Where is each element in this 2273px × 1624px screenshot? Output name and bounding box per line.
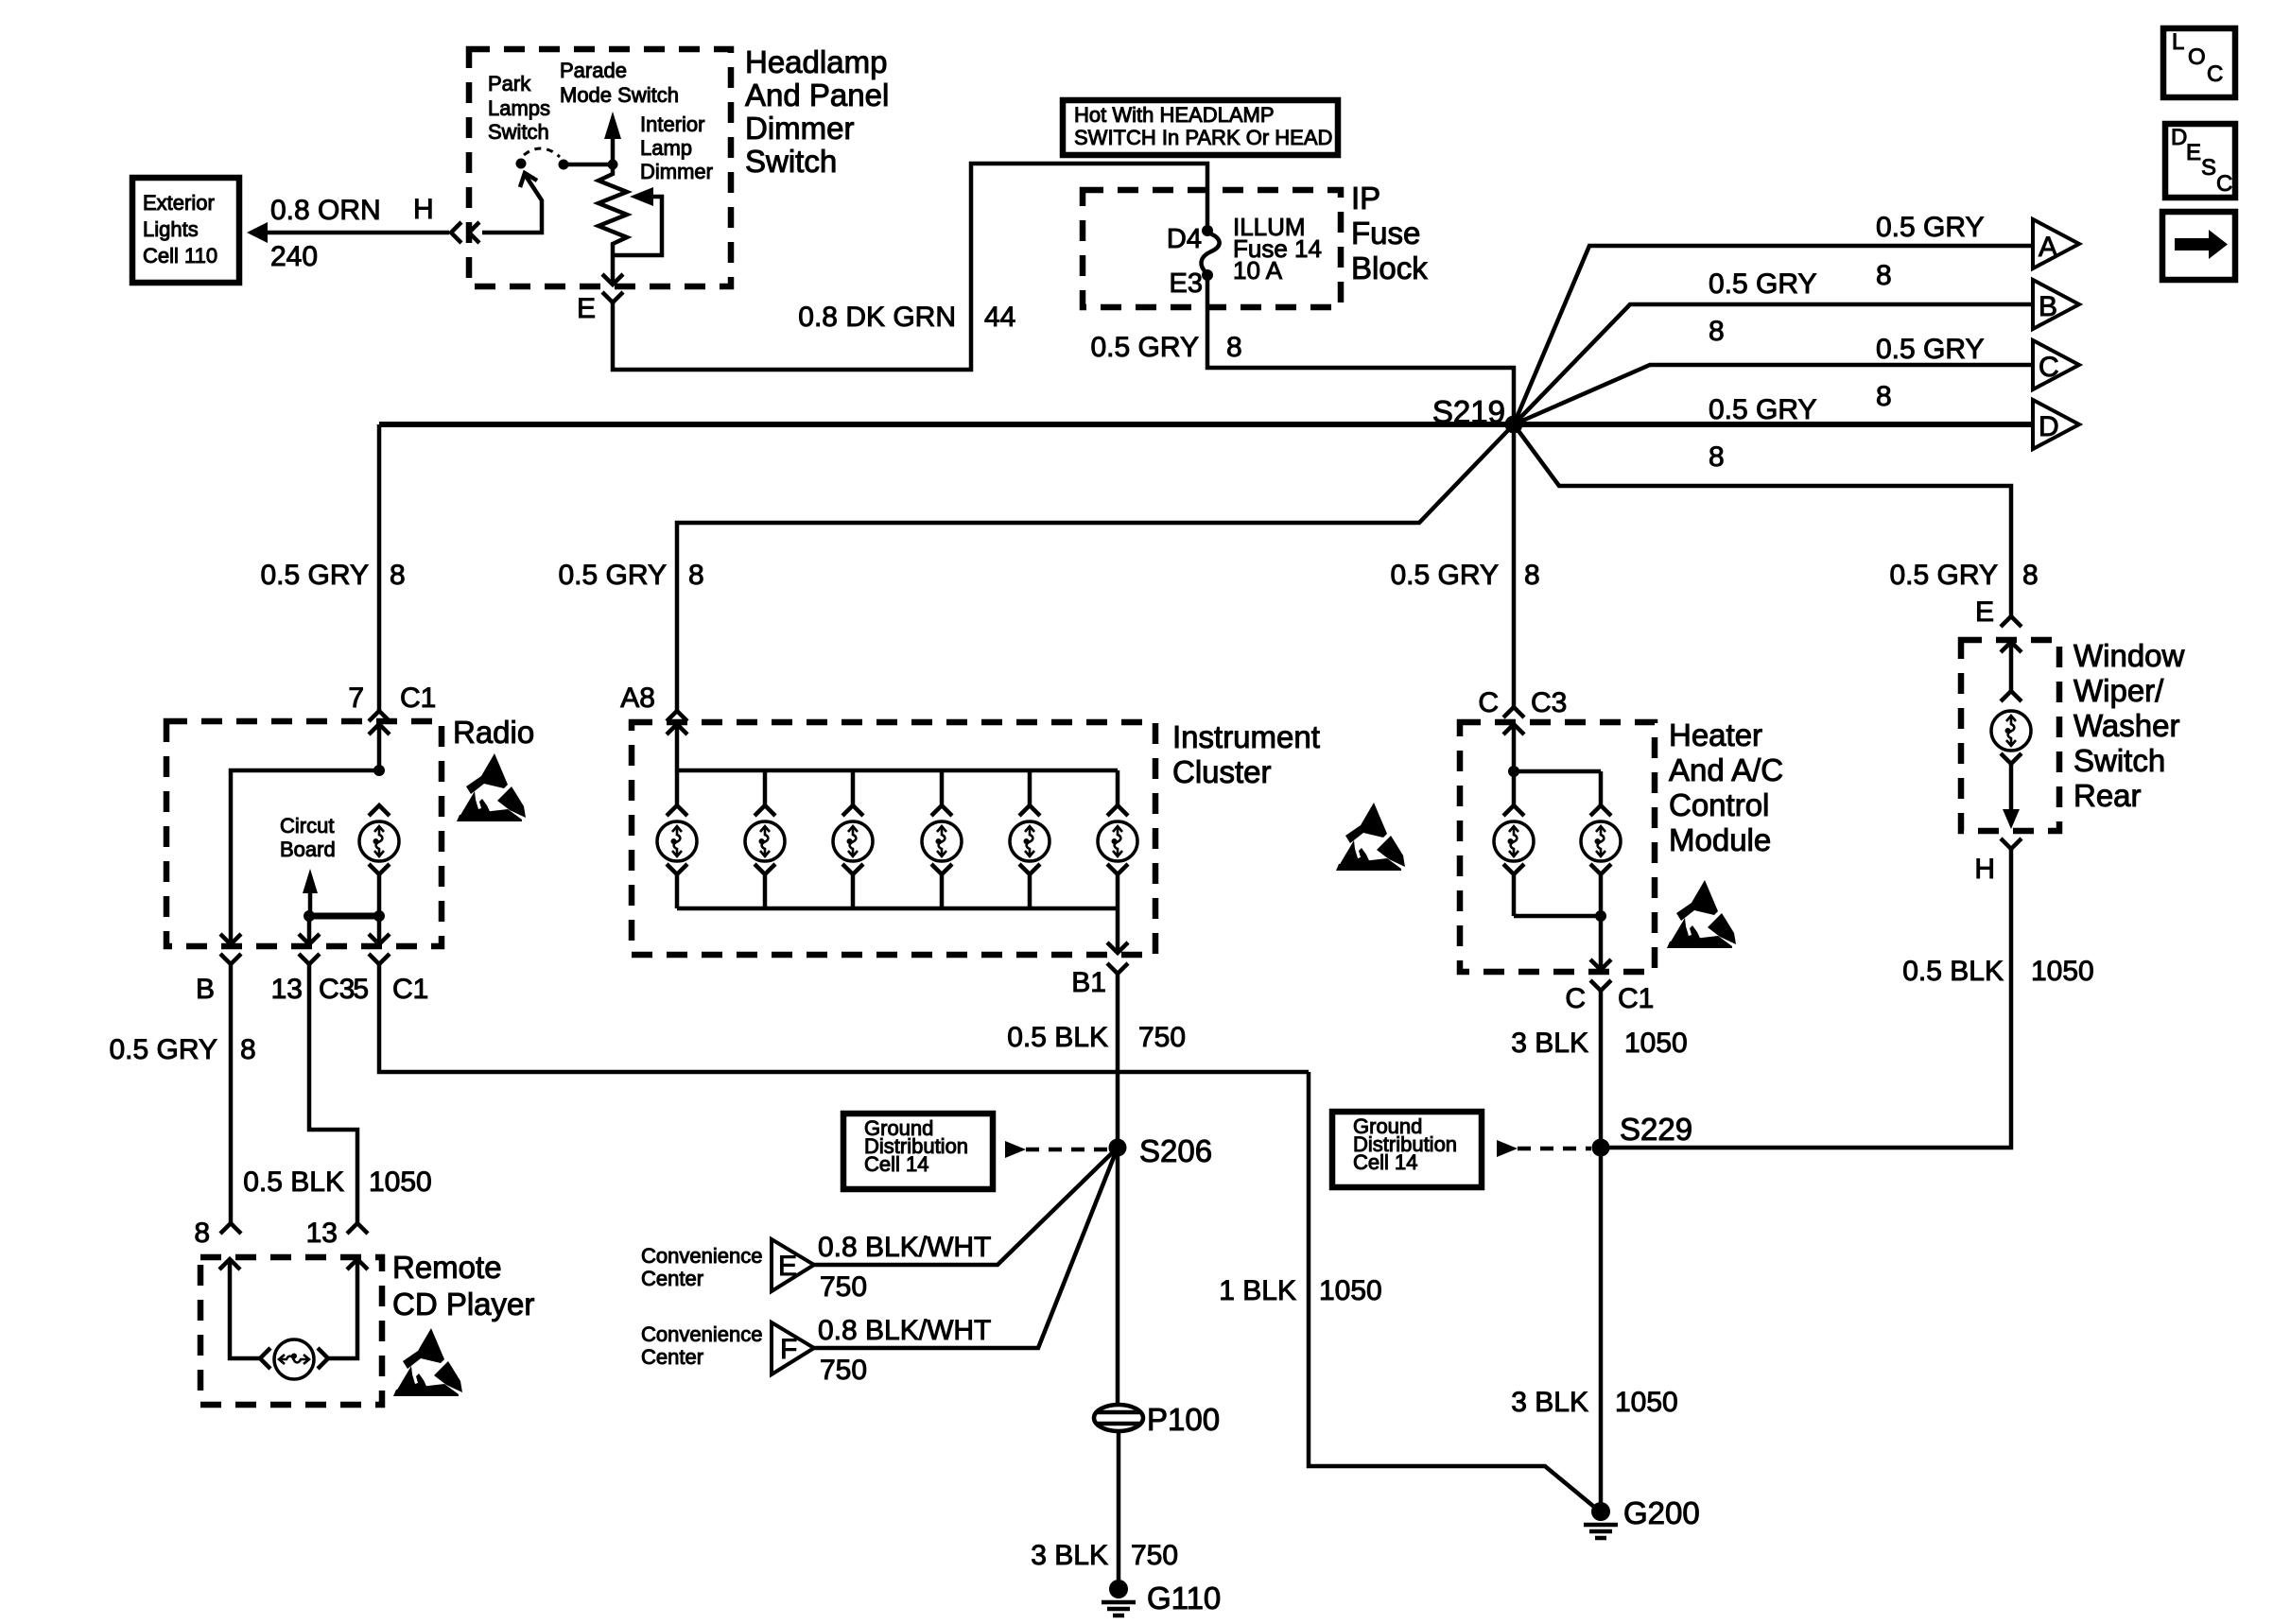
svg-text:Lights: Lights bbox=[143, 217, 199, 241]
svg-text:D: D bbox=[2171, 125, 2187, 150]
svg-text:S206: S206 bbox=[1139, 1133, 1212, 1168]
label: Heater And A/C Control Module bbox=[1669, 717, 1783, 857]
label: Headlamp And Panel Dimmer Switch bbox=[745, 44, 889, 179]
wire: radio circuit board bus bbox=[299, 910, 390, 944]
svg-text:L: L bbox=[2172, 29, 2184, 55]
svg-text:Block: Block bbox=[1351, 251, 1428, 285]
svg-text:8: 8 bbox=[1709, 441, 1725, 473]
connector A triangle bbox=[2033, 219, 2079, 268]
wire: arrow exit inside wiper box bbox=[2003, 764, 2020, 829]
fuse: ILLUM Fuse 14 10 A element with terminals D4 E3 bbox=[1167, 213, 1322, 299]
svg-text:H: H bbox=[1974, 854, 1995, 885]
svg-text:Dimmer: Dimmer bbox=[640, 160, 713, 183]
svg-text:8: 8 bbox=[1876, 260, 1892, 291]
pin B of Radio bbox=[196, 954, 241, 1005]
ground G200 bbox=[1584, 1495, 1700, 1538]
svg-text:B1: B1 bbox=[1071, 967, 1106, 998]
wiper: dimmer arrow bbox=[613, 187, 662, 255]
svg-text:750: 750 bbox=[1131, 1540, 1178, 1571]
svg-text:8: 8 bbox=[2022, 560, 2039, 591]
component: Radio dashed box bbox=[166, 721, 442, 946]
wire: cluster top bus bbox=[677, 769, 1118, 773]
svg-text:Exterior: Exterior bbox=[143, 191, 215, 215]
resistor: Interior Lamp Dimmer element bbox=[599, 170, 627, 283]
svg-text:C3: C3 bbox=[1531, 687, 1567, 718]
svg-text:Control: Control bbox=[1669, 787, 1769, 822]
svg-text:Convenience: Convenience bbox=[641, 1322, 762, 1346]
wire: 0.5 BLK 1050 from S229 up to wiper pin H bbox=[1601, 838, 2094, 1148]
svg-text:1050: 1050 bbox=[1615, 1387, 1678, 1418]
svg-text:G110: G110 bbox=[1147, 1581, 1221, 1615]
svg-text:1 BLK: 1 BLK bbox=[1219, 1275, 1296, 1306]
label: Remote CD Player bbox=[392, 1250, 534, 1322]
pin 7 C1 entry into Radio bbox=[369, 724, 390, 770]
svg-text:E: E bbox=[778, 1251, 797, 1282]
svg-text:G200: G200 bbox=[1623, 1495, 1700, 1530]
svg-text:And Panel: And Panel bbox=[745, 78, 889, 112]
lamp: wiper switch bulb bbox=[1991, 642, 2031, 764]
pin 5 C1 of Radio bbox=[353, 954, 428, 1005]
svg-text:P100: P100 bbox=[1147, 1402, 1220, 1437]
component: IP Fuse Block dashed box bbox=[1083, 190, 1341, 307]
svg-text:C3: C3 bbox=[319, 974, 355, 1005]
svg-text:0.5 GRY: 0.5 GRY bbox=[260, 560, 369, 591]
svg-text:Center: Center bbox=[641, 1345, 703, 1369]
connector C triangle bbox=[2033, 340, 2079, 389]
svg-text:240: 240 bbox=[270, 241, 318, 272]
svg-text:A: A bbox=[2039, 232, 2057, 263]
svg-text:0.5 GRY: 0.5 GRY bbox=[1090, 332, 1199, 363]
svg-text:8: 8 bbox=[1226, 332, 1242, 363]
svg-text:Module: Module bbox=[1669, 822, 1771, 857]
svg-text:IP: IP bbox=[1351, 181, 1380, 216]
svg-text:13: 13 bbox=[271, 974, 303, 1005]
wire: 3 BLK 750 from P100 to G110 bbox=[1031, 1431, 1178, 1581]
connector P100 pass-through bbox=[1094, 1148, 1220, 1437]
svg-text:0.5 BLK: 0.5 BLK bbox=[1902, 956, 2004, 987]
box: Ground Distribution Cell 14 (right) bbox=[1332, 1112, 1482, 1187]
wire: dashed reference arrow to S229 bbox=[1497, 1140, 1591, 1157]
box DESC bbox=[2165, 124, 2235, 198]
svg-text:1050: 1050 bbox=[1319, 1275, 1382, 1306]
svg-text:E: E bbox=[1975, 596, 1994, 628]
svg-text:C1: C1 bbox=[400, 682, 436, 714]
svg-text:C1: C1 bbox=[1618, 983, 1654, 1014]
connector F Convenience Center bbox=[641, 1322, 814, 1374]
svg-text:Cell 14: Cell 14 bbox=[864, 1152, 928, 1176]
wire: heater bottom bus bbox=[1514, 910, 1606, 922]
svg-text:Rear: Rear bbox=[2073, 778, 2142, 813]
component: Remote CD Player dashed box bbox=[200, 1257, 382, 1405]
svg-text:0.5 GRY: 0.5 GRY bbox=[1876, 212, 1985, 243]
box LOC bbox=[2163, 28, 2235, 97]
svg-text:Dimmer: Dimmer bbox=[745, 111, 854, 146]
icon: ESD symbol for Radio bbox=[457, 753, 526, 821]
svg-text:750: 750 bbox=[1138, 1022, 1186, 1053]
svg-text:0.8 ORN: 0.8 ORN bbox=[270, 195, 381, 226]
wire: 0.8 DK GRN 44 from E to fuse block bbox=[613, 164, 1207, 370]
svg-text:750: 750 bbox=[820, 1355, 867, 1386]
svg-text:Park: Park bbox=[488, 72, 531, 95]
svg-text:0.8 DK GRN: 0.8 DK GRN bbox=[798, 302, 956, 333]
svg-text:Fuse: Fuse bbox=[1351, 216, 1420, 251]
svg-text:Washer: Washer bbox=[2073, 708, 2179, 743]
lamp: heater bulb 2 bbox=[1581, 771, 1621, 916]
svg-text:8: 8 bbox=[688, 560, 704, 591]
component: Instrument Cluster dashed box bbox=[632, 722, 1155, 955]
label: Parade Mode Switch bbox=[560, 59, 679, 107]
svg-text:Cell 110: Cell 110 bbox=[143, 244, 217, 268]
svg-text:10 A: 10 A bbox=[1233, 256, 1283, 285]
wire: 0.5 BLK 1050 from Radio 13 C3 to CD player pin 13 bbox=[243, 964, 432, 1249]
svg-text:C1: C1 bbox=[392, 974, 428, 1005]
wire: 0.5 GRY 8 from Radio B to CD player pin 8 bbox=[109, 964, 255, 1249]
wire: 0.5 GRY 8 from S219 down to Heater pin C C3 bbox=[1390, 424, 1567, 718]
switch: Park Lamps Switch lever and contacts bbox=[482, 148, 569, 233]
wire: 1 BLK 1050 ground run to G200 bbox=[1219, 1072, 1600, 1512]
svg-text:1050: 1050 bbox=[369, 1166, 432, 1198]
svg-text:1050: 1050 bbox=[1624, 1028, 1688, 1059]
svg-text:E: E bbox=[577, 293, 596, 324]
wire: radio branch to pin B bbox=[220, 770, 379, 944]
svg-text:0.8 BLK/WHT: 0.8 BLK/WHT bbox=[818, 1315, 991, 1346]
connector D triangle bbox=[2033, 400, 2079, 449]
lamp: cluster bulb 2 bbox=[745, 770, 785, 908]
label: Circut Board with pointer arrow bbox=[280, 814, 336, 916]
svg-text:8: 8 bbox=[194, 1218, 210, 1249]
lamp: CD player bulb with side connectors bbox=[219, 1259, 368, 1379]
svg-text:Cell 14: Cell 14 bbox=[1353, 1150, 1417, 1174]
wire: dashed reference arrow to S206 bbox=[1005, 1141, 1108, 1158]
wire: 0.8 ORN 240 to Exterior Lights with arrowhead bbox=[247, 195, 449, 272]
svg-text:E: E bbox=[2186, 140, 2201, 165]
lamp: cluster bulb 6 bbox=[1098, 770, 1137, 908]
label: Window Wiper/Washer Switch Rear bbox=[2073, 638, 2185, 813]
svg-text:13: 13 bbox=[306, 1218, 338, 1249]
lamp: cluster bulb 4 bbox=[922, 770, 962, 908]
svg-text:Center: Center bbox=[641, 1267, 703, 1290]
svg-text:0.5 GRY: 0.5 GRY bbox=[1709, 394, 1817, 425]
svg-text:C: C bbox=[1565, 983, 1586, 1014]
svg-text:CD Player: CD Player bbox=[392, 1287, 534, 1322]
svg-text:Window: Window bbox=[2073, 638, 2185, 673]
svg-text:1050: 1050 bbox=[2031, 956, 2094, 987]
connector E Convenience Center bbox=[641, 1239, 814, 1291]
svg-text:3 BLK: 3 BLK bbox=[1511, 1387, 1588, 1418]
svg-text:H: H bbox=[413, 194, 434, 225]
svg-text:O: O bbox=[2188, 44, 2206, 70]
svg-text:0.5 GRY: 0.5 GRY bbox=[1709, 268, 1817, 300]
pin E exit of headlamp switch bbox=[577, 274, 623, 324]
lamp: cluster bulb 1 bbox=[657, 770, 697, 908]
svg-text:Cluster: Cluster bbox=[1172, 754, 1272, 789]
pin A8 entry arrow into cluster bbox=[667, 724, 687, 770]
box: Hot With HEADLAMP SWITCH In PARK Or HEAD bbox=[1063, 100, 1338, 155]
icon: ESD symbol for Instrument Cluster bbox=[1336, 803, 1405, 871]
svg-text:0.5 GRY: 0.5 GRY bbox=[109, 1034, 217, 1065]
connector B triangle bbox=[2033, 280, 2079, 329]
svg-text:Mode Switch: Mode Switch bbox=[560, 83, 679, 107]
svg-text:Radio: Radio bbox=[453, 715, 534, 750]
svg-text:8: 8 bbox=[1876, 381, 1892, 412]
splice S229 bbox=[1592, 1112, 1693, 1157]
svg-text:A8: A8 bbox=[620, 682, 655, 714]
label: Park Lamps Switch bbox=[488, 72, 550, 144]
box: right arrow legend bbox=[2162, 212, 2235, 280]
node H connector chevrons at headlamp switch bbox=[413, 194, 479, 243]
lamp: cluster bulb 3 bbox=[833, 770, 873, 908]
svg-text:Lamps: Lamps bbox=[488, 96, 550, 120]
svg-text:8: 8 bbox=[240, 1034, 256, 1065]
svg-text:Lamp: Lamp bbox=[640, 136, 692, 160]
svg-text:750: 750 bbox=[820, 1271, 867, 1303]
svg-text:Remote: Remote bbox=[392, 1250, 502, 1285]
svg-text:0.5 GRY: 0.5 GRY bbox=[558, 560, 667, 591]
svg-text:C: C bbox=[1478, 687, 1499, 718]
wire: 0.5 GRY 8 from S219 to connector D bbox=[1514, 394, 2033, 473]
svg-text:0.8 BLK/WHT: 0.8 BLK/WHT bbox=[818, 1232, 991, 1263]
pin 13 C3 of Radio bbox=[271, 954, 356, 1005]
wire: main horizontal from S219 to radio drop bbox=[379, 422, 1514, 427]
svg-text:Board: Board bbox=[280, 838, 336, 861]
svg-text:7: 7 bbox=[348, 682, 364, 714]
svg-text:8: 8 bbox=[1524, 560, 1540, 591]
ground G110 bbox=[1102, 1580, 1221, 1615]
svg-text:E3: E3 bbox=[1170, 268, 1203, 299]
pin B1 exit of cluster bbox=[1071, 908, 1128, 998]
svg-text:And A/C: And A/C bbox=[1669, 752, 1783, 787]
splice S219 bbox=[1432, 394, 1523, 434]
wire: 0.5 GRY 8 from S219 to connector B bbox=[1514, 268, 2033, 424]
svg-text:B: B bbox=[2039, 291, 2057, 322]
svg-text:D4: D4 bbox=[1167, 224, 1202, 254]
svg-text:D: D bbox=[2039, 411, 2059, 442]
wire: 0.5 GRY 8 from fuse E3 down to S219 bbox=[1090, 275, 1514, 424]
wire: 0.5 GRY 8 from S219 to Window Wiper pin E bbox=[1514, 424, 2039, 628]
svg-text:F: F bbox=[780, 1334, 797, 1365]
label: Instrument Cluster bbox=[1172, 719, 1320, 789]
svg-text:Heater: Heater bbox=[1669, 717, 1762, 752]
svg-text:0.5 BLK: 0.5 BLK bbox=[1007, 1022, 1108, 1053]
svg-text:44: 44 bbox=[984, 302, 1015, 333]
box: Exterior Lights Cell 110 bbox=[132, 178, 239, 283]
component: Heater And A/C Control Module dashed box bbox=[1460, 722, 1655, 972]
svg-text:0.5 BLK: 0.5 BLK bbox=[243, 1166, 344, 1198]
svg-text:Circut: Circut bbox=[280, 814, 334, 838]
svg-text:Switch: Switch bbox=[488, 120, 549, 144]
lamp: radio illumination bulb bbox=[359, 805, 399, 916]
lamp: heater bulb 1 bbox=[1494, 771, 1534, 916]
icon: ESD symbol for Heater module bbox=[1667, 880, 1736, 948]
switch: Parade Mode Switch arrow bbox=[564, 112, 621, 170]
wire: 0.5 BLK 750 from B1 to S206 bbox=[1007, 974, 1186, 1139]
svg-text:Switch: Switch bbox=[2073, 743, 2165, 778]
lamp: cluster bulb 5 bbox=[1010, 770, 1050, 908]
wire: 3 BLK 1050 from S229 down to G200 bbox=[1511, 1148, 1677, 1503]
component: Headlamp And Panel Dimmer Switch dashed box bbox=[469, 49, 731, 286]
label: Interior Lamp Dimmer bbox=[640, 112, 713, 183]
svg-text:S229: S229 bbox=[1620, 1112, 1692, 1147]
svg-text:Switch: Switch bbox=[745, 144, 837, 179]
component: Window Wiper/Washer Switch Rear dashed box bbox=[1961, 640, 2059, 831]
svg-text:0.5 GRY: 0.5 GRY bbox=[1390, 560, 1499, 591]
wire: 0.5 GRY 8 from S219 to connector C bbox=[1514, 334, 2033, 424]
svg-text:Instrument: Instrument bbox=[1172, 719, 1320, 754]
wire: 0.5 GRY 8 down to Radio pin 7 C1 bbox=[260, 424, 436, 721]
pin C C3 entry arrow into heater bbox=[1503, 724, 1524, 771]
wire: cluster bottom bus bbox=[677, 907, 1118, 911]
box: Ground Distribution Cell 14 (left) bbox=[843, 1114, 993, 1189]
splice S206 bbox=[1109, 1133, 1213, 1168]
wire: 0.8 BLK/WHT 750 from connector F to S206 bbox=[814, 1148, 1118, 1386]
wire: 0.8 BLK/WHT 750 from connector E to S206 bbox=[814, 1148, 1118, 1303]
svg-text:3 BLK: 3 BLK bbox=[1031, 1540, 1108, 1571]
svg-text:B: B bbox=[196, 974, 215, 1005]
wire: ground run from Radio 5 C1 across page bbox=[379, 964, 1309, 1072]
wire: 0.5 GRY 8 from S219 to Instrument Cluster pin A8 bbox=[558, 424, 1514, 721]
svg-text:5: 5 bbox=[353, 974, 369, 1005]
svg-text:0.5 GRY: 0.5 GRY bbox=[1889, 560, 1998, 591]
svg-text:Interior: Interior bbox=[640, 112, 704, 136]
svg-text:8: 8 bbox=[390, 560, 406, 591]
svg-text:0.5 GRY: 0.5 GRY bbox=[1876, 334, 1985, 365]
svg-text:C: C bbox=[2207, 61, 2223, 87]
svg-text:Wiper/: Wiper/ bbox=[2073, 673, 2164, 708]
svg-text:3 BLK: 3 BLK bbox=[1511, 1028, 1588, 1059]
svg-text:S: S bbox=[2201, 155, 2216, 181]
svg-text:Headlamp: Headlamp bbox=[745, 44, 887, 79]
svg-text:SWITCH In PARK Or HEAD: SWITCH In PARK Or HEAD bbox=[1074, 126, 1332, 149]
pin C C1 exit of heater bbox=[1565, 916, 1654, 1014]
wire: 0.5 GRY 8 from S219 to connector A bbox=[1514, 212, 2033, 424]
wire: 3 BLK 1050 from heater C1 to S229 bbox=[1511, 991, 1687, 1139]
svg-text:Parade: Parade bbox=[560, 59, 627, 82]
svg-text:8: 8 bbox=[1709, 316, 1725, 347]
svg-text:C: C bbox=[2039, 352, 2059, 383]
svg-text:Convenience: Convenience bbox=[641, 1244, 762, 1268]
svg-text:C: C bbox=[2216, 171, 2232, 197]
svg-text:Hot With HEADLAMP: Hot With HEADLAMP bbox=[1074, 103, 1275, 127]
icon: ESD symbol for Remote CD Player bbox=[393, 1328, 462, 1396]
label: IP Fuse Block bbox=[1351, 181, 1428, 285]
node: radio internal junction bbox=[373, 765, 385, 776]
node: heater internal junction bbox=[1508, 766, 1601, 777]
